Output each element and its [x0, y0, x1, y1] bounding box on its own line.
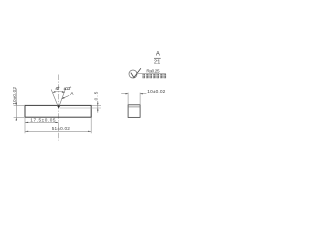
left dim arrow upper	[16, 103, 17, 106]
V-notch right leg extension	[59, 89, 66, 108]
surface roughness circle	[129, 70, 137, 78]
notch depth dim extension line top	[92, 104, 101, 106]
svg-text:51±0.02: 51±0.02	[52, 126, 71, 131]
side view groove depth line	[128, 106, 140, 108]
angle arc arrowhead right	[62, 91, 65, 93]
side width dim extension lines	[127, 93, 129, 105]
notch depth level extension line	[60, 107, 101, 109]
dim 17.5 arrow left	[25, 122, 28, 123]
svg-text:2:1: 2:1	[154, 60, 160, 66]
detail leader arrow	[62, 95, 69, 98]
notch apex	[57, 106, 60, 109]
side view outline	[128, 105, 140, 118]
side width dim line right tail	[140, 93, 146, 95]
dim 17.5 arrow right	[55, 122, 58, 123]
detail label divider line	[154, 57, 161, 59]
dimension 51 extension lines	[24, 125, 26, 134]
V-notch left leg extension	[51, 90, 58, 108]
svg-text:17.5±0.05: 17.5±0.05	[30, 118, 56, 123]
main view bar outline	[25, 105, 91, 117]
dimension 51 line	[25, 130, 91, 132]
left height dim extension lines	[14, 104, 24, 106]
side width dim line left tail	[121, 93, 128, 95]
dimension 17.5 extension line	[24, 118, 26, 125]
svg-text:±0.3°: ±0.3°	[64, 86, 72, 92]
note leader line	[137, 72, 166, 74]
side width arrow right	[140, 93, 143, 94]
svg-text:10±0.02: 10±0.02	[147, 89, 165, 95]
svg-text:40°: 40°	[55, 86, 60, 92]
svg-text:A: A	[156, 52, 160, 58]
note text glyph blocks (CJK simulated)	[143, 74, 167, 78]
angle dimension arc	[53, 91, 65, 92]
dim 51 arrow right	[88, 131, 91, 132]
notch depth dim line	[97, 101, 99, 113]
svg-text:Ra0.25: Ra0.25	[146, 68, 160, 73]
left height dim line	[15, 89, 17, 121]
left dim arrow lower	[16, 118, 17, 121]
svg-text:10±0.02: 10±0.02	[12, 87, 17, 105]
dim 51 arrow left	[25, 131, 28, 132]
depth dim arrow upper	[97, 103, 98, 106]
angle arc arrowhead left	[53, 91, 56, 93]
surface roughness check symbol	[131, 68, 141, 77]
centerline of V-notch (dash-dot)	[58, 75, 60, 141]
dimension 17.5 line	[25, 121, 59, 123]
side width arrow left	[126, 93, 129, 94]
depth dim arrow lower	[97, 108, 98, 111]
svg-text:0.5: 0.5	[93, 91, 98, 100]
